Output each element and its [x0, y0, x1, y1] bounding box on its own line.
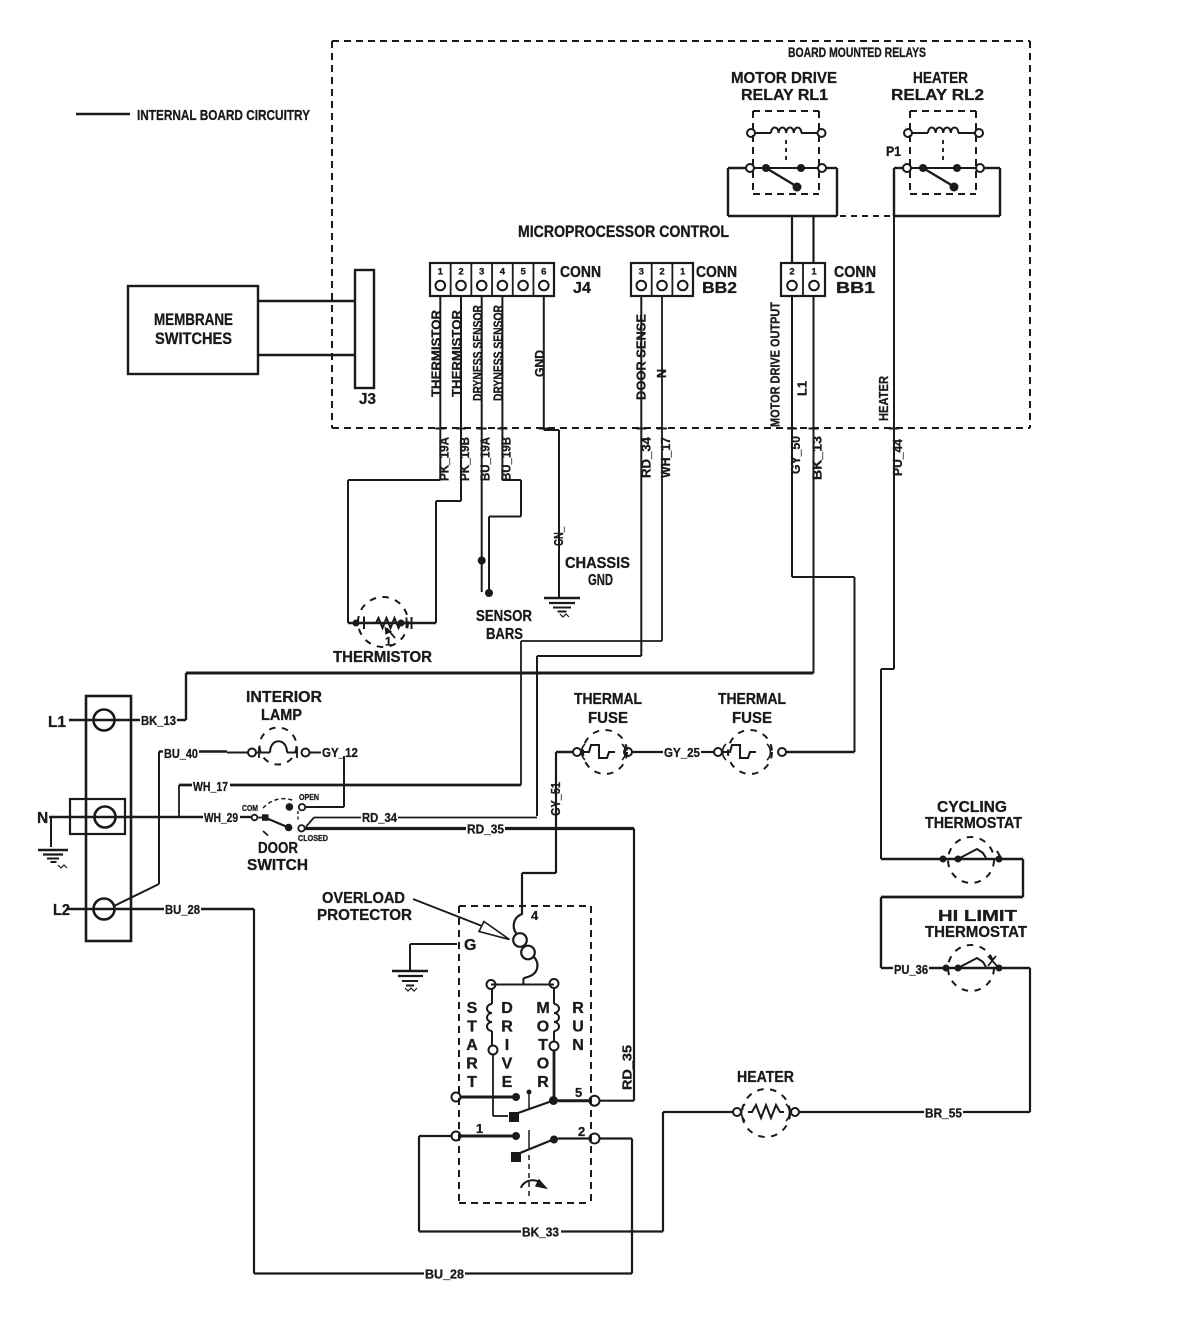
- label OVERLOAD PROTECTOR: [317, 890, 412, 924]
- motor run winding: [550, 988, 560, 1097]
- wire PK_19B to thermistor: [436, 427, 461, 623]
- svg-text:N: N: [37, 810, 48, 827]
- relay RL1 coil-to-contact dashed link: [785, 140, 787, 161]
- svg-text:P1: P1: [886, 143, 901, 159]
- motor switch row 2: [452, 1121, 633, 1162]
- svg-text:GND: GND: [588, 572, 613, 589]
- svg-text:E: E: [502, 1074, 513, 1091]
- svg-text:THERMISTOR: THERMISTOR: [430, 310, 444, 397]
- svg-text:BU_28: BU_28: [165, 902, 200, 917]
- svg-text:GN_: GN_: [552, 526, 566, 546]
- svg-text:BK_33: BK_33: [522, 1225, 559, 1240]
- wire label GY_50: [789, 436, 803, 474]
- svg-text:U: U: [572, 1019, 584, 1036]
- wire RL1 to BB1 pin1: [812, 216, 814, 263]
- wire L1 bus BK_13: [186, 672, 814, 675]
- svg-text:LAMP: LAMP: [261, 707, 302, 724]
- svg-text:PU_36: PU_36: [894, 962, 928, 977]
- label RUN: [572, 1000, 584, 1054]
- svg-text:CONN: CONN: [696, 264, 737, 281]
- svg-text:DOOR SENSE: DOOR SENSE: [634, 314, 648, 400]
- svg-text:SENSOR: SENSOR: [476, 608, 532, 625]
- svg-text:WH_29: WH_29: [204, 810, 238, 825]
- label GN wire: [552, 526, 566, 546]
- svg-text:FUSE: FUSE: [588, 710, 628, 727]
- svg-text:GY_51: GY_51: [549, 782, 563, 816]
- heater element: [733, 1089, 799, 1137]
- svg-text:1: 1: [438, 267, 444, 278]
- overload callout arrow: [413, 899, 510, 940]
- svg-text:2: 2: [458, 267, 463, 278]
- svg-text:2: 2: [578, 1124, 585, 1139]
- svg-text:1: 1: [811, 267, 817, 278]
- wire BB2 pin2 N: [661, 296, 663, 427]
- label HEATER RELAY RL2: [891, 70, 984, 104]
- wire cycling to hilimit: [881, 859, 1023, 968]
- wire label PK_19A: [437, 437, 451, 481]
- label MOTOR: [536, 1000, 549, 1091]
- svg-text:PU_44: PU_44: [891, 439, 905, 476]
- svg-text:COM: COM: [242, 803, 258, 813]
- motor switch row 1: [452, 1085, 635, 1122]
- wire membrane to J3 lower: [258, 354, 355, 357]
- connector J3: [355, 270, 376, 408]
- svg-text:D: D: [501, 1000, 513, 1017]
- chassis ground symbol: [544, 598, 580, 617]
- label START: [466, 1000, 478, 1091]
- thermal fuse 2: [714, 730, 786, 774]
- svg-text:HEATER: HEATER: [877, 376, 891, 421]
- svg-text:MOTOR DRIVE: MOTOR DRIVE: [731, 70, 837, 87]
- wire BK_13 to bus: [813, 427, 815, 673]
- wire label RD_34: [639, 437, 653, 478]
- svg-text:INTERIOR: INTERIOR: [246, 689, 322, 706]
- border ticks BB1: [787, 428, 819, 430]
- wire BU_19B sensor bar: [485, 427, 521, 597]
- terminal N box: [70, 799, 125, 834]
- svg-text:THERMISTOR: THERMISTOR: [333, 649, 432, 666]
- label MOTOR DRIVE OUTPUT: [769, 302, 783, 427]
- svg-text:L1: L1: [796, 381, 810, 396]
- wire WH_17 run: [179, 427, 662, 817]
- wire RD_34 from door switch: [306, 810, 537, 827]
- legend line: internal board circuitry: [76, 108, 310, 124]
- svg-text:1: 1: [680, 267, 686, 278]
- terminal N: [37, 807, 203, 828]
- svg-text:OPEN: OPEN: [299, 792, 319, 802]
- label DOOR SWITCH: [247, 840, 308, 874]
- svg-text:BU_28: BU_28: [425, 1267, 464, 1282]
- wire label WH_17: [659, 437, 673, 478]
- wire hilimit to BR_55: [1029, 968, 1031, 1112]
- wire RD_34 run: [537, 427, 641, 816]
- svg-text:BB2: BB2: [702, 280, 737, 297]
- svg-text:T: T: [467, 1019, 477, 1036]
- svg-text:DRYNESS SENSOR: DRYNESS SENSOR: [492, 305, 506, 401]
- relay RL2 switch contacts: [903, 164, 984, 192]
- wire RL1 to BB1 pin2: [791, 216, 793, 263]
- border tick PU_44: [889, 428, 899, 430]
- svg-text:RD_35: RD_35: [467, 822, 504, 837]
- svg-text:RELAY RL1: RELAY RL1: [741, 87, 828, 104]
- wire BU_28 from L2: [165, 902, 424, 1274]
- wire BB1 pin1 L1: [813, 296, 815, 427]
- svg-text:O: O: [537, 1019, 549, 1036]
- terminal L1: [48, 710, 140, 732]
- label HI LIMIT THERMOSTAT: [925, 908, 1027, 941]
- svg-text:I: I: [505, 1037, 509, 1054]
- label CONN BB2: [696, 264, 737, 297]
- svg-text:HI LIMIT: HI LIMIT: [938, 908, 1017, 925]
- wire label BU_19B: [499, 437, 513, 481]
- wire heater left: [663, 1111, 733, 1113]
- motor dashed box: [459, 906, 591, 1203]
- border ticks BB2: [636, 428, 667, 430]
- svg-text:L2: L2: [53, 902, 70, 919]
- svg-text:R: R: [537, 1074, 549, 1091]
- label THERMAL FUSE 1: [574, 691, 642, 727]
- svg-text:N: N: [572, 1037, 584, 1054]
- relay RL1 body box: [728, 168, 837, 216]
- dashed enclosure: microprocessor control board: [332, 41, 1030, 428]
- svg-text:M: M: [536, 1000, 549, 1017]
- connector BB2: [631, 263, 693, 296]
- motor winding top bar: [487, 979, 559, 989]
- label CYCLING THERMOSTAT: [925, 799, 1022, 832]
- svg-text:SWITCH: SWITCH: [247, 857, 308, 874]
- svg-text:A: A: [466, 1037, 478, 1054]
- svg-text:THERMAL: THERMAL: [574, 691, 642, 708]
- svg-text:DRYNESS SENSOR: DRYNESS SENSOR: [471, 305, 485, 401]
- svg-text:THERMISTOR: THERMISTOR: [450, 310, 464, 397]
- connector BB1: [781, 263, 825, 296]
- svg-text:OVERLOAD: OVERLOAD: [322, 890, 405, 907]
- wire PK_19A to thermistor: [348, 427, 440, 623]
- svg-text:L1: L1: [48, 714, 66, 731]
- svg-text:4: 4: [500, 267, 506, 278]
- svg-text:HEATER: HEATER: [913, 70, 968, 87]
- neutral ground: [38, 817, 68, 868]
- relay RL2 coil-to-contact dashed link: [942, 140, 944, 161]
- svg-text:3: 3: [479, 267, 484, 278]
- label INTERIOR LAMP: [246, 689, 322, 724]
- svg-text:BARS: BARS: [486, 626, 523, 643]
- label HEATER element: [737, 1069, 794, 1086]
- label N: [655, 369, 669, 378]
- svg-text:6: 6: [541, 267, 546, 278]
- svg-text:T: T: [538, 1037, 548, 1054]
- label SENSOR BARS: [476, 608, 532, 643]
- wire BK_33: [419, 1112, 663, 1240]
- wire label PU_44: [891, 439, 905, 476]
- wire GY_50 run: [792, 427, 855, 752]
- svg-text:RD_35: RD_35: [621, 1045, 635, 1090]
- svg-text:2: 2: [789, 267, 794, 278]
- wire label BU_19A: [479, 437, 493, 481]
- wire fuse2 to GY_50: [786, 751, 855, 753]
- label HEATER vertical: [877, 376, 891, 421]
- wire BR_55: [799, 1106, 1030, 1121]
- interior lamp: [227, 728, 321, 765]
- wire RD_35: [304, 822, 634, 1101]
- svg-text:R: R: [501, 1019, 513, 1036]
- svg-text:GND: GND: [533, 350, 547, 377]
- label BOARD MOUNTED RELAYS: [788, 45, 926, 60]
- wire BB1 pin2 motor drive output: [791, 296, 793, 427]
- wire label PK_19B: [458, 437, 472, 481]
- svg-text:CLOSED: CLOSED: [298, 833, 328, 843]
- svg-text:CYCLING: CYCLING: [937, 799, 1007, 816]
- label MOTOR DRIVE RELAY RL1: [731, 70, 837, 104]
- label GY_51 vertical: [549, 782, 563, 816]
- wires J4 pins 1-4 down: [440, 296, 502, 427]
- svg-text:RELAY RL2: RELAY RL2: [891, 87, 984, 104]
- relay RL1 switch contacts: [746, 164, 826, 192]
- svg-text:J3: J3: [359, 391, 376, 408]
- svg-text:GY_25: GY_25: [664, 745, 700, 760]
- wire membrane to J3 upper: [258, 300, 355, 303]
- svg-text:HEATER: HEATER: [737, 1069, 794, 1086]
- svg-text:T: T: [467, 1074, 477, 1091]
- wire BU_19A sensor bar: [478, 427, 486, 592]
- relay RL2 coil: [904, 128, 983, 138]
- svg-text:THERMOSTAT: THERMOSTAT: [925, 924, 1027, 941]
- label DOOR SENSE: [634, 314, 648, 400]
- label DRIVE: [501, 1000, 513, 1091]
- wire GY_25: [632, 745, 714, 760]
- svg-text:J4: J4: [573, 280, 591, 297]
- svg-text:BK_13: BK_13: [141, 713, 176, 728]
- label MICROPROCESSOR CONTROL: [518, 223, 729, 241]
- label BU_28 lower: [425, 1267, 464, 1282]
- svg-text:RD_34: RD_34: [362, 810, 398, 825]
- label L1 vertical: [796, 381, 810, 396]
- wire GY_51: [522, 752, 556, 907]
- svg-text:CONN: CONN: [560, 264, 601, 281]
- label PU_36: [894, 962, 928, 977]
- labels thermistor dryness sensor gnd: [430, 305, 548, 401]
- svg-text:BOARD MOUNTED RELAYS: BOARD MOUNTED RELAYS: [788, 45, 926, 60]
- svg-text:FUSE: FUSE: [732, 710, 772, 727]
- svg-text:O: O: [537, 1056, 549, 1073]
- svg-text:MICROPROCESSOR CONTROL: MICROPROCESSOR CONTROL: [518, 223, 729, 241]
- svg-text:CHASSIS: CHASSIS: [565, 555, 630, 572]
- svg-text:4: 4: [531, 908, 539, 923]
- svg-text:SWITCHES: SWITCHES: [155, 330, 232, 348]
- relay RL1 coil: [747, 128, 826, 138]
- svg-text:BU_40: BU_40: [164, 746, 198, 761]
- svg-text:CONN: CONN: [834, 264, 876, 281]
- svg-text:G: G: [464, 937, 476, 954]
- border crossing ticks J4 wires: [435, 428, 549, 430]
- svg-text:MOTOR DRIVE OUTPUT: MOTOR DRIVE OUTPUT: [769, 302, 783, 427]
- label P1: [886, 143, 901, 159]
- svg-text:S: S: [467, 1000, 478, 1017]
- svg-text:5: 5: [575, 1085, 582, 1100]
- wire GY_12: [305, 745, 358, 807]
- svg-text:MEMBRANE: MEMBRANE: [154, 311, 233, 329]
- door switch: [242, 792, 328, 843]
- membrane switches block: [128, 286, 258, 374]
- motor G ground: [392, 937, 476, 991]
- label THERMAL FUSE 2: [718, 691, 786, 727]
- svg-text:1: 1: [385, 635, 392, 649]
- label RD_35 vertical: [621, 1045, 635, 1090]
- wire BK_13 from L1: [141, 673, 186, 728]
- svg-text:INTERNAL BOARD CIRCUITRY: INTERNAL BOARD CIRCUITRY: [137, 108, 310, 124]
- terminal block: [86, 696, 131, 941]
- svg-text:R: R: [466, 1056, 478, 1073]
- svg-text:GY_12: GY_12: [322, 745, 358, 760]
- thermistor: [348, 597, 436, 649]
- svg-text:WH_17: WH_17: [193, 779, 228, 794]
- label CHASSIS GND: [565, 555, 630, 589]
- svg-text:BB1: BB1: [836, 280, 875, 297]
- svg-text:N: N: [655, 369, 669, 378]
- label CONN J4: [560, 264, 601, 297]
- wire BB2 pin3 door sense: [640, 296, 642, 427]
- wire BU_40: [114, 746, 227, 906]
- wire GY_51 to fuse1: [556, 751, 573, 753]
- wire BU_28 to motor contact 2: [465, 1139, 632, 1274]
- overload protector: [513, 906, 539, 984]
- centrifugal actuator: [521, 1155, 546, 1200]
- dashed link between relay bodies: [840, 215, 893, 217]
- relay RL2 body box: [894, 168, 1000, 216]
- label CONN BB1: [834, 264, 876, 297]
- wire PU_44 heater from RL2: [881, 216, 894, 859]
- cycling thermostat: [881, 837, 1023, 883]
- thermal fuse 1: [573, 730, 632, 774]
- hi limit thermostat: [881, 945, 1030, 991]
- svg-text:R: R: [572, 1000, 584, 1017]
- svg-text:2: 2: [659, 267, 664, 278]
- relay RL1 dashed outline: [753, 111, 819, 194]
- connector J4: [430, 263, 554, 296]
- svg-text:V: V: [502, 1056, 513, 1073]
- label THERMISTOR: [333, 649, 432, 666]
- svg-text:PROTECTOR: PROTECTOR: [317, 907, 412, 924]
- wire WH_29: [204, 810, 252, 825]
- wire label BK_13 vertical: [811, 436, 825, 480]
- svg-text:BR_55: BR_55: [925, 1106, 962, 1121]
- svg-text:THERMOSTAT: THERMOSTAT: [925, 815, 1022, 832]
- svg-text:THERMAL: THERMAL: [718, 691, 786, 708]
- terminal L2: [53, 899, 164, 920]
- svg-text:3: 3: [639, 267, 644, 278]
- relay RL2 dashed outline: [910, 111, 976, 194]
- svg-text:DOOR: DOOR: [258, 840, 298, 857]
- svg-text:1: 1: [476, 1121, 483, 1136]
- motor start winding: [487, 989, 508, 1116]
- label WH_17 on wire: [192, 779, 230, 794]
- wire J4 pin6 GND down: [544, 296, 559, 598]
- svg-text:5: 5: [520, 267, 526, 278]
